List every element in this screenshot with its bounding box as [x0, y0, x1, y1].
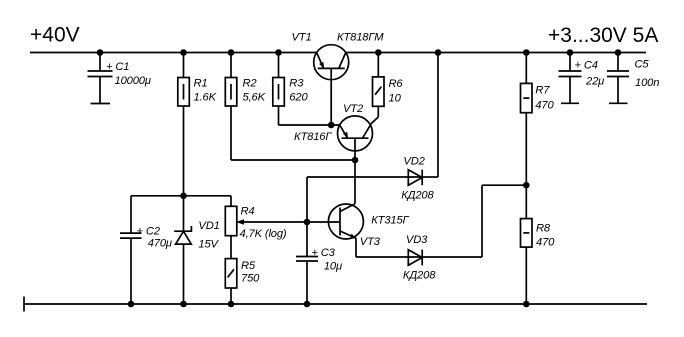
- wire R3 bottom to VT1 base node: [279, 124, 341, 126]
- svg-text:VD2: VD2: [403, 156, 425, 168]
- wire C2/VD1 node to R4 top: [131, 195, 231, 197]
- capacitor C1: [88, 53, 113, 104]
- junction top rail R6: [375, 49, 382, 56]
- junction bottom rail R5: [228, 301, 235, 308]
- svg-text:R8: R8: [536, 223, 551, 235]
- svg-text:R6: R6: [389, 78, 404, 90]
- svg-text:+ C2: + C2: [137, 226, 161, 238]
- svg-text:R4: R4: [241, 206, 255, 218]
- top rail (+40V input to output): [30, 52, 646, 54]
- svg-text:+40V: +40V: [30, 24, 80, 47]
- capacitor C5: [607, 53, 629, 104]
- svg-text:VD1: VD1: [198, 220, 219, 232]
- junction bottom rail VD1: [180, 301, 187, 308]
- zener diode VD1: [174, 196, 192, 304]
- svg-text:R7: R7: [535, 85, 550, 97]
- wire VT2 collector to R6: [371, 117, 378, 124]
- junction bottom rail R8: [523, 301, 530, 308]
- svg-text:КТ818ГМ: КТ818ГМ: [337, 32, 384, 44]
- transistor VT2: [338, 116, 373, 160]
- R4 wiper arrow: [236, 219, 307, 225]
- resistor R6: [373, 53, 385, 118]
- svg-text:+3...30V 5A: +3...30V 5A: [548, 24, 658, 47]
- svg-text:1.6K: 1.6K: [194, 92, 217, 104]
- resistor R5: [225, 259, 237, 304]
- svg-text:10: 10: [389, 93, 402, 105]
- svg-text:R3: R3: [289, 78, 304, 90]
- svg-text:10μ: 10μ: [324, 261, 342, 273]
- svg-text:VT1: VT1: [292, 32, 312, 44]
- svg-text:КТ816Г: КТ816Г: [294, 131, 332, 143]
- resistor R2: [225, 53, 237, 161]
- node A (VT1 base / R3 / VT2 emitter): [328, 122, 335, 129]
- svg-text:+ C4: + C4: [575, 60, 598, 72]
- node B (VT2 base / R2 / VT3 collector): [352, 157, 359, 164]
- svg-text:4,7K (log): 4,7K (log): [240, 228, 287, 240]
- junction top rail R2: [228, 49, 235, 56]
- transistor VT1: [314, 45, 349, 125]
- svg-text:VT2: VT2: [343, 103, 364, 115]
- wire node B down to VT3 collector: [354, 160, 356, 204]
- svg-text:КД208: КД208: [401, 190, 434, 202]
- resistor R3: [273, 53, 285, 126]
- svg-text:+ C3: + C3: [311, 247, 335, 259]
- svg-text:470: 470: [536, 237, 555, 249]
- junction top rail C5: [615, 49, 622, 56]
- node E (R1 / VD1 / R4 wire): [180, 193, 187, 200]
- svg-text:100n: 100n: [635, 77, 659, 89]
- svg-text:VT3: VT3: [360, 236, 381, 248]
- svg-text:750: 750: [241, 273, 260, 285]
- potentiometer R4: [225, 196, 237, 259]
- junction bottom rail C2: [128, 301, 135, 308]
- node C (R4 wiper / VD2 / VT3 base / C3): [304, 219, 311, 226]
- bottom rail (common): [24, 297, 647, 312]
- svg-text:620: 620: [289, 92, 308, 104]
- svg-text:470: 470: [535, 100, 554, 112]
- capacitor C2: [120, 196, 142, 304]
- diode VD3: [408, 185, 526, 265]
- svg-text:22μ: 22μ: [585, 76, 604, 88]
- svg-text:C5: C5: [635, 59, 650, 71]
- wire VT3 emitter down and right to VD3: [356, 238, 422, 257]
- wire node C up and right to VD2: [307, 177, 422, 222]
- junction top rail C4: [567, 49, 574, 56]
- svg-text:R1: R1: [194, 78, 208, 90]
- wire R2 bottom to VT2 base node: [231, 159, 355, 161]
- junction bottom rail C3: [304, 301, 311, 308]
- resistor R7: [521, 53, 533, 186]
- resistor R8: [521, 185, 533, 304]
- svg-text:10000μ: 10000μ: [115, 75, 151, 87]
- svg-text:КТ315Г: КТ315Г: [371, 215, 409, 227]
- junction top rail R1: [180, 49, 187, 56]
- svg-text:VD3: VD3: [406, 234, 428, 246]
- capacitor C4: [559, 53, 582, 104]
- svg-text:+ C1: + C1: [106, 61, 129, 73]
- svg-text:15V: 15V: [198, 239, 219, 251]
- resistor R1: [178, 53, 190, 196]
- junction top rail VD2: [435, 49, 442, 56]
- junction top rail R7: [523, 49, 530, 56]
- junction top rail C1: [97, 49, 104, 56]
- capacitor C3: [296, 222, 318, 304]
- svg-text:R5: R5: [241, 260, 256, 272]
- svg-text:5,6K: 5,6K: [243, 92, 266, 104]
- diode VD2: [408, 53, 438, 186]
- svg-text:470μ: 470μ: [148, 238, 172, 250]
- svg-text:КД208: КД208: [403, 270, 436, 282]
- node D (R7 / R8 / VD3): [523, 182, 530, 189]
- junction top rail R3: [275, 49, 282, 56]
- transistor VT3: [307, 204, 363, 239]
- svg-text:R2: R2: [243, 78, 258, 90]
